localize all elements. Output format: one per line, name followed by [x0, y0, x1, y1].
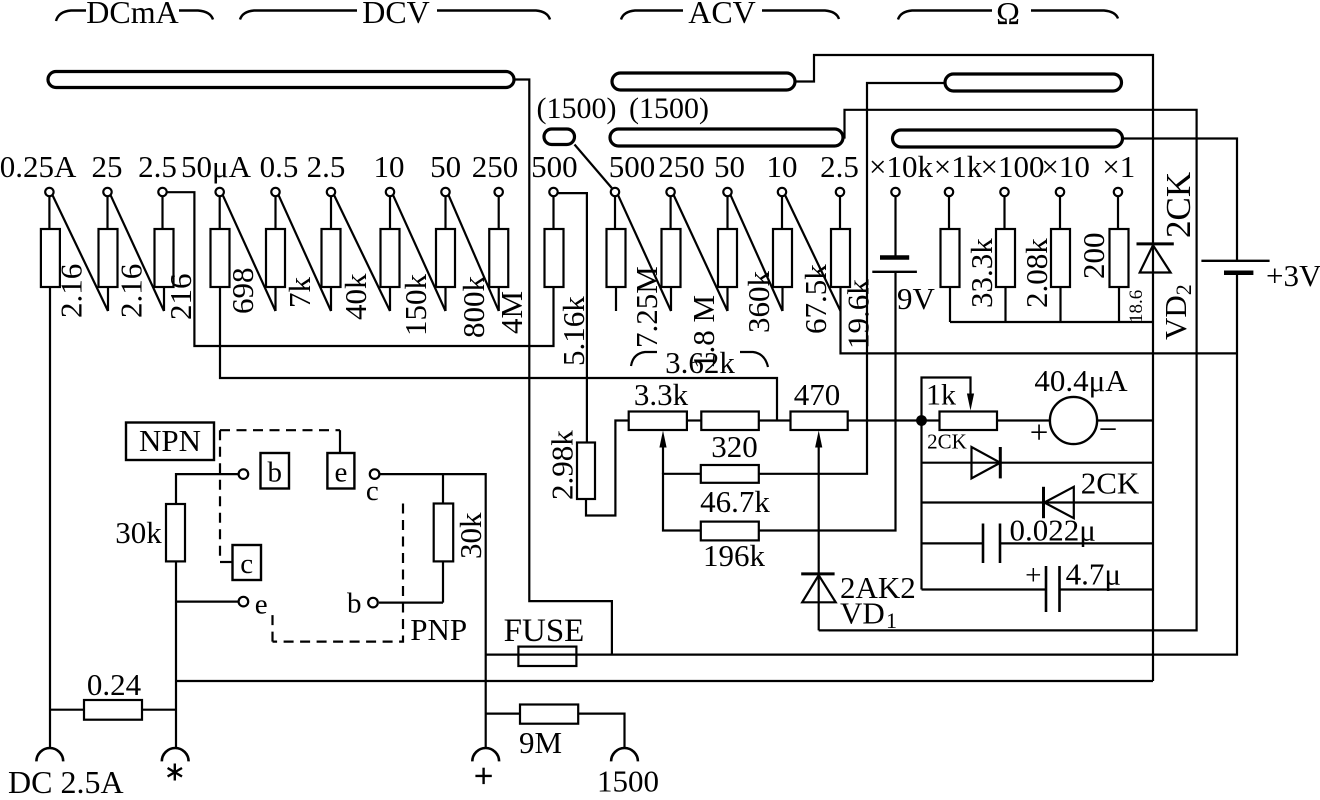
label plus symbol — [475, 775, 491, 777]
svg-text:25: 25 — [92, 149, 123, 184]
wire 2.98k bottom to 3.3k left — [586, 421, 629, 516]
node PNP b contact — [368, 598, 378, 608]
resistor R8 800k — [436, 229, 455, 287]
svg-text:698: 698 — [225, 268, 260, 315]
wire contact lead col13 — [726, 197, 728, 229]
svg-text:320: 320 — [711, 429, 758, 464]
wire Omega bottom bus — [950, 321, 1153, 323]
wire contact stub x=331 — [330, 287, 332, 311]
label e box — [327, 453, 354, 489]
svg-text:e: e — [255, 589, 268, 621]
node switch contact circle col20 — [1114, 188, 1122, 196]
svg-text:9V: 9V — [897, 281, 936, 316]
svg-text:40.4μA: 40.4μA — [1034, 363, 1128, 398]
svg-text:216: 216 — [163, 274, 198, 321]
svg-text:40k: 40k — [338, 273, 373, 320]
node switch contact circle col16 — [891, 188, 899, 196]
wire e box lead — [339, 430, 341, 453]
switch bar ACV lower — [610, 129, 843, 146]
svg-text:NPN: NPN — [139, 423, 201, 458]
node NPN e contact — [239, 597, 249, 607]
wire Omega resistor bottom lead x=1060.5 — [1059, 287, 1061, 322]
wire contact lead col9 — [498, 197, 500, 229]
resistor R19 18.6 — [1110, 229, 1129, 287]
terminal plus — [472, 748, 499, 761]
wire contact stub x=616 — [615, 287, 617, 311]
wire contact lead col20 — [1117, 197, 1119, 229]
svg-text:0.022μ: 0.022μ — [1010, 513, 1096, 548]
svg-text:PNP: PNP — [410, 612, 467, 647]
resistor R9 4M — [489, 229, 508, 287]
wire row 2CK diode right-pointing — [922, 462, 1154, 464]
diode VD1 2AK2 — [801, 572, 834, 575]
svg-text:VD: VD — [840, 596, 885, 631]
node switch contact circle col19 — [1056, 188, 1064, 196]
resistor 0.24 — [84, 700, 142, 720]
fuse FUSE — [518, 647, 576, 666]
svg-text:0.25A: 0.25A — [0, 149, 77, 184]
resistor R4 698 — [211, 229, 230, 287]
wire wiper diagonal 219.7->275.5 — [223, 195, 276, 311]
node switch contact circle col14 — [778, 188, 786, 196]
node switch contact circle col10 — [549, 188, 557, 196]
svg-text:18.6: 18.6 — [1126, 290, 1147, 323]
node switch contact circle col3 — [158, 188, 166, 196]
wire wiper diagonal 727.5->782.5 — [731, 195, 783, 311]
wire NPN e to column — [176, 600, 239, 602]
wire wiper diagonal 390->445.5 — [393, 195, 445, 311]
svg-text:2.98k: 2.98k — [545, 430, 580, 500]
wire wiper diagonal 445.5->498.75 — [449, 195, 499, 311]
wire contact lead col5 — [274, 197, 276, 229]
svg-text:4.7μ: 4.7μ — [1066, 557, 1121, 592]
svg-text:FUSE: FUSE — [504, 613, 585, 649]
node switch contact circle col13 — [723, 188, 731, 196]
wire contact lead col14 — [781, 197, 783, 229]
node switch contact circle col8 — [441, 188, 449, 196]
svg-text:e: e — [334, 457, 347, 489]
svg-text:(1500): (1500) — [629, 92, 709, 125]
svg-text:c: c — [366, 475, 379, 507]
svg-text:360k: 360k — [741, 271, 776, 334]
wire 0.24 right lead — [142, 709, 176, 711]
resistor R7 150k — [381, 229, 400, 287]
resistor R16 33.3k — [941, 229, 960, 287]
node switch contact circle col11 — [611, 188, 619, 196]
node switch contact circle col2 — [103, 188, 111, 196]
svg-text:c: c — [240, 548, 253, 580]
svg-text:3.3k: 3.3k — [634, 377, 689, 412]
resistor 320 — [701, 412, 759, 431]
svg-text:46.7k: 46.7k — [700, 484, 770, 519]
resistor 2.98k — [577, 443, 595, 500]
wire contact stub x=108 — [107, 287, 109, 311]
wire 3.3k to 320 — [687, 419, 701, 421]
svg-text:500: 500 — [531, 149, 578, 184]
wire wiper diagonal 275.5->331 — [279, 195, 331, 311]
node switch contact circle col18 — [1000, 188, 1008, 196]
node switch contact circle col4 — [216, 188, 224, 196]
section label DCV with bracket — [240, 11, 357, 20]
resistor R5 7k — [266, 229, 285, 287]
wire contact stub x=498.75 — [498, 287, 500, 311]
wire Omega resistor bottom lead x=1005.5 — [1004, 287, 1006, 322]
resistor R10 5.16k — [545, 229, 564, 287]
resistor R1 2.16 — [41, 229, 60, 287]
label star symbol — [174, 764, 176, 781]
switch bar DCmA/DCV — [48, 72, 514, 88]
wire 1k to meter — [997, 419, 1050, 421]
wire stub to c box — [220, 561, 233, 563]
wire contact lead col3 — [161, 197, 163, 229]
wire contact lead col6 — [330, 197, 332, 229]
wiper arrow into 470 — [818, 444, 820, 630]
resistor 9M — [520, 705, 578, 724]
wire box left edge — [920, 421, 922, 590]
svg-text:7k: 7k — [282, 277, 317, 309]
svg-text:2.16: 2.16 — [54, 264, 89, 318]
svg-text:+: + — [1030, 415, 1049, 451]
wire wiper diagonal 49.4->108 — [53, 195, 108, 311]
capacitor 4.7u plates — [1045, 566, 1048, 612]
wire ACV upper bar to VD2 column x=1153 — [795, 55, 1153, 681]
svg-text:150k: 150k — [398, 274, 433, 337]
wire Omega resistor bottom lead x=950 — [949, 287, 951, 322]
svg-text:9M: 9M — [519, 725, 562, 760]
dashed NPN outline left — [219, 430, 221, 562]
wire 1k wiper hook — [922, 378, 971, 421]
resistor R18 200 — [1051, 229, 1070, 287]
svg-text:30k: 30k — [453, 512, 488, 559]
node switch contact circle col5 — [271, 188, 279, 196]
wire contact lead col15 — [839, 197, 841, 229]
wire 500VDC contact to 2.98k top — [558, 193, 587, 442]
svg-text:b: b — [347, 588, 362, 620]
wire contact lead col18 — [1003, 197, 1005, 229]
resistor 46.7k — [701, 465, 759, 483]
wire 470 to 1k — [848, 419, 940, 421]
resistor R3 216 — [155, 229, 174, 287]
wire contact lead col17 — [948, 197, 950, 229]
wire wiper diagonal 107.5->164 — [111, 195, 164, 311]
wire bar1 to fuse via x=529 — [514, 80, 612, 655]
wire 30k right top lead — [442, 474, 444, 503]
resistor 470 — [791, 412, 848, 431]
wire diagonal short bar to 500VAC contact — [575, 145, 612, 189]
node switch contact circle col7 — [386, 188, 394, 196]
resistor 1k — [940, 412, 998, 431]
svg-text:2CK: 2CK — [927, 430, 967, 454]
node switch contact circle col6 — [327, 188, 335, 196]
svg-text:7.25M: 7.25M — [629, 266, 664, 348]
wire common horizontal y=681 — [176, 680, 1153, 682]
node switch contact circle col1 — [45, 188, 53, 196]
svg-text:1k: 1k — [926, 379, 956, 412]
svg-text:30k: 30k — [115, 515, 162, 550]
svg-text:DCV: DCV — [362, 0, 430, 30]
svg-text:50μA: 50μA — [181, 149, 252, 184]
resistor R2 2.16 — [99, 229, 118, 287]
svg-text:250: 250 — [658, 149, 705, 184]
svg-text:DCmA: DCmA — [86, 0, 178, 30]
label b box — [261, 453, 290, 489]
wire PNP b to 30k bottom — [379, 601, 443, 603]
switch bar Omega upper — [945, 74, 1122, 91]
switch bar short (1500 tap) — [544, 129, 575, 145]
svg-text:b: b — [267, 457, 282, 489]
svg-text:×1: ×1 — [1102, 149, 1135, 184]
wire 19.6k bottom to horizontal y=353 — [841, 287, 1238, 353]
svg-text:50: 50 — [430, 149, 461, 184]
wire contact stub x=164 — [163, 287, 165, 311]
terminal star — [162, 748, 189, 761]
dashed PNP outline — [273, 504, 404, 642]
svg-text:DC 2.5A: DC 2.5A — [8, 764, 124, 800]
label 3.62k with bracket — [631, 352, 657, 366]
svg-text:2CK: 2CK — [1081, 466, 1140, 501]
wire 698 bottom via y=378 to 320/470 junction — [220, 287, 777, 421]
resistor R15 19.6k — [831, 229, 850, 287]
resistor 30k left — [166, 504, 185, 561]
battery +3V plates — [1201, 260, 1269, 262]
wire contact stub x=727.5 — [726, 287, 728, 311]
svg-text:50: 50 — [714, 149, 745, 184]
section label ACV with bracket — [621, 11, 683, 20]
wire contact lead col16 — [894, 197, 896, 256]
svg-text:2.08k: 2.08k — [1019, 238, 1054, 308]
node switch contact circle col12 — [666, 188, 674, 196]
wire NPN b to 30k — [176, 474, 238, 504]
wire contact stub x=445.5 — [444, 287, 446, 311]
svg-text:5.16k: 5.16k — [556, 296, 591, 366]
svg-text:33.3k: 33.3k — [964, 238, 999, 308]
switch bar Omega lower — [893, 130, 1123, 147]
svg-text:−: − — [1099, 412, 1118, 448]
wire 0.24 left lead — [50, 709, 84, 711]
wire 320 to 470 — [759, 419, 791, 421]
diode VD2 2CK — [1137, 242, 1174, 245]
node switch contact circle col17 — [945, 188, 953, 196]
node switch contact circle col9 — [495, 188, 503, 196]
svg-text:×10k: ×10k — [869, 149, 933, 184]
svg-text:500: 500 — [609, 149, 656, 184]
wire wiper diagonal 670.6->727.5 — [674, 195, 728, 311]
wire wiper diagonal 331->390 — [334, 195, 390, 311]
svg-text:0.5: 0.5 — [260, 149, 299, 184]
wire left column R1 to DC terminal — [49, 287, 51, 748]
wire contact stub x=390 — [389, 287, 391, 311]
wire contact lead col8 — [444, 197, 446, 229]
resistor 196k — [701, 522, 759, 541]
wire 9M left lead — [486, 712, 520, 714]
resistor R17 2.08k — [996, 229, 1015, 287]
switch bar ACV upper — [612, 73, 795, 90]
resistor R13 360k — [718, 229, 737, 287]
wire row capacitor 0.022u — [922, 542, 984, 544]
section label DCmA with bracket — [56, 11, 86, 22]
wire contact lead col2 — [106, 197, 108, 229]
svg-text:0.24: 0.24 — [87, 667, 142, 702]
wire contact lead col10 — [552, 197, 554, 229]
wire contact lead col12 — [669, 197, 671, 229]
section label Omega with bracket — [898, 11, 992, 20]
node switch contact circle col15 — [836, 188, 844, 196]
wire wiper diagonal 782->840.5 — [785, 195, 840, 311]
node NPN b contact — [239, 469, 249, 479]
svg-text:4M: 4M — [494, 291, 529, 334]
wire 2.5mA contact via y=346 to 5.16k bottom — [167, 192, 554, 346]
svg-text:2.5: 2.5 — [138, 149, 177, 184]
svg-text:2.5: 2.5 — [307, 149, 346, 184]
node junction dot — [916, 415, 927, 426]
svg-text:Ω: Ω — [996, 0, 1020, 31]
svg-text:2.5: 2.5 — [820, 149, 859, 184]
resistor R14 67.5k — [773, 229, 792, 287]
svg-text:×1k: ×1k — [934, 149, 983, 184]
wire contact lead col19 — [1059, 197, 1061, 229]
resistor 30k right — [434, 504, 454, 562]
wiper arrow into 1k — [967, 394, 974, 411]
wire contact stub x=782.5 — [781, 287, 783, 311]
wire row capacitor 4.7u — [922, 588, 1047, 590]
label NPN box — [126, 423, 214, 461]
wire 9M right lead to 1500 terminal — [578, 714, 624, 748]
wire 30k right bottom lead — [442, 561, 444, 602]
svg-text:+3V: +3V — [1266, 258, 1320, 293]
svg-text:ACV: ACV — [688, 0, 756, 30]
wire meter to x=1153 — [1097, 419, 1153, 421]
resistor 3.3k — [629, 412, 687, 431]
svg-text:1500: 1500 — [597, 764, 659, 799]
wire contact lead col11 — [614, 197, 616, 229]
svg-text:10: 10 — [767, 149, 798, 184]
wire Omega resistor bottom lead x=1119 — [1118, 287, 1120, 322]
wire wiper diagonal 615->671 — [618, 195, 671, 311]
svg-text:+: + — [1025, 560, 1041, 592]
wire row 2CK diode left-pointing — [922, 501, 1154, 503]
diode 2CK left-pointing — [1044, 487, 1074, 518]
wiper arrow into 3.3k — [662, 444, 664, 474]
svg-text:2.16: 2.16 — [114, 264, 149, 318]
terminal 1500 — [611, 748, 638, 761]
wire 30k left bottom to star terminal — [175, 561, 177, 748]
wire contact stub x=671 — [670, 287, 672, 311]
wire ACV lower bar to x=1197 down to VD1 row — [819, 110, 1197, 631]
wire Omega upper bar left down x=867 to 46.7k — [759, 83, 946, 474]
diode 2CK right-pointing — [972, 447, 1001, 478]
wire Omega lower bar right to +3V battery top — [1122, 139, 1237, 261]
terminal DC 2.5A — [36, 748, 63, 761]
svg-text:10: 10 — [374, 149, 405, 184]
svg-text:×100: ×100 — [981, 149, 1045, 184]
wire +3V battery bottom down and left through fuse line — [486, 273, 1237, 655]
svg-text:19.6k: 19.6k — [841, 279, 876, 349]
resistor R6 40k — [322, 229, 341, 287]
wire contact stub x=275.5 — [274, 287, 276, 311]
svg-text:3.62k: 3.62k — [665, 345, 735, 380]
svg-text:1: 1 — [886, 608, 897, 633]
node PNP c contact — [370, 469, 380, 479]
svg-text:800k: 800k — [456, 276, 491, 339]
svg-text:250: 250 — [472, 149, 519, 184]
resistor R11 7.25M — [607, 229, 626, 287]
wire 46.7k-196k left ties — [663, 474, 701, 531]
svg-text:470: 470 — [794, 377, 841, 412]
wire contact lead col4 — [219, 197, 221, 229]
capacitor 0.022u plates — [982, 524, 985, 564]
label c box — [233, 545, 262, 580]
svg-text:200: 200 — [1076, 233, 1111, 280]
wire 9V battery bottom lead to 196k — [759, 273, 896, 531]
svg-text:2CK: 2CK — [1159, 172, 1198, 238]
svg-text:67.5k: 67.5k — [798, 264, 833, 334]
wire contact lead col7 — [389, 197, 391, 229]
wire PNP c to plus column — [379, 474, 485, 748]
resistor R12 1.8 M — [662, 229, 681, 287]
wire contact lead col1 — [48, 197, 50, 229]
meter 40.4uA circle — [1050, 397, 1097, 444]
dashed NPN outline top — [220, 429, 340, 431]
svg-text:(1500): (1500) — [537, 92, 617, 125]
battery 9V plates — [880, 255, 909, 260]
svg-text:×10: ×10 — [1041, 149, 1089, 184]
svg-text:196k: 196k — [703, 538, 766, 573]
